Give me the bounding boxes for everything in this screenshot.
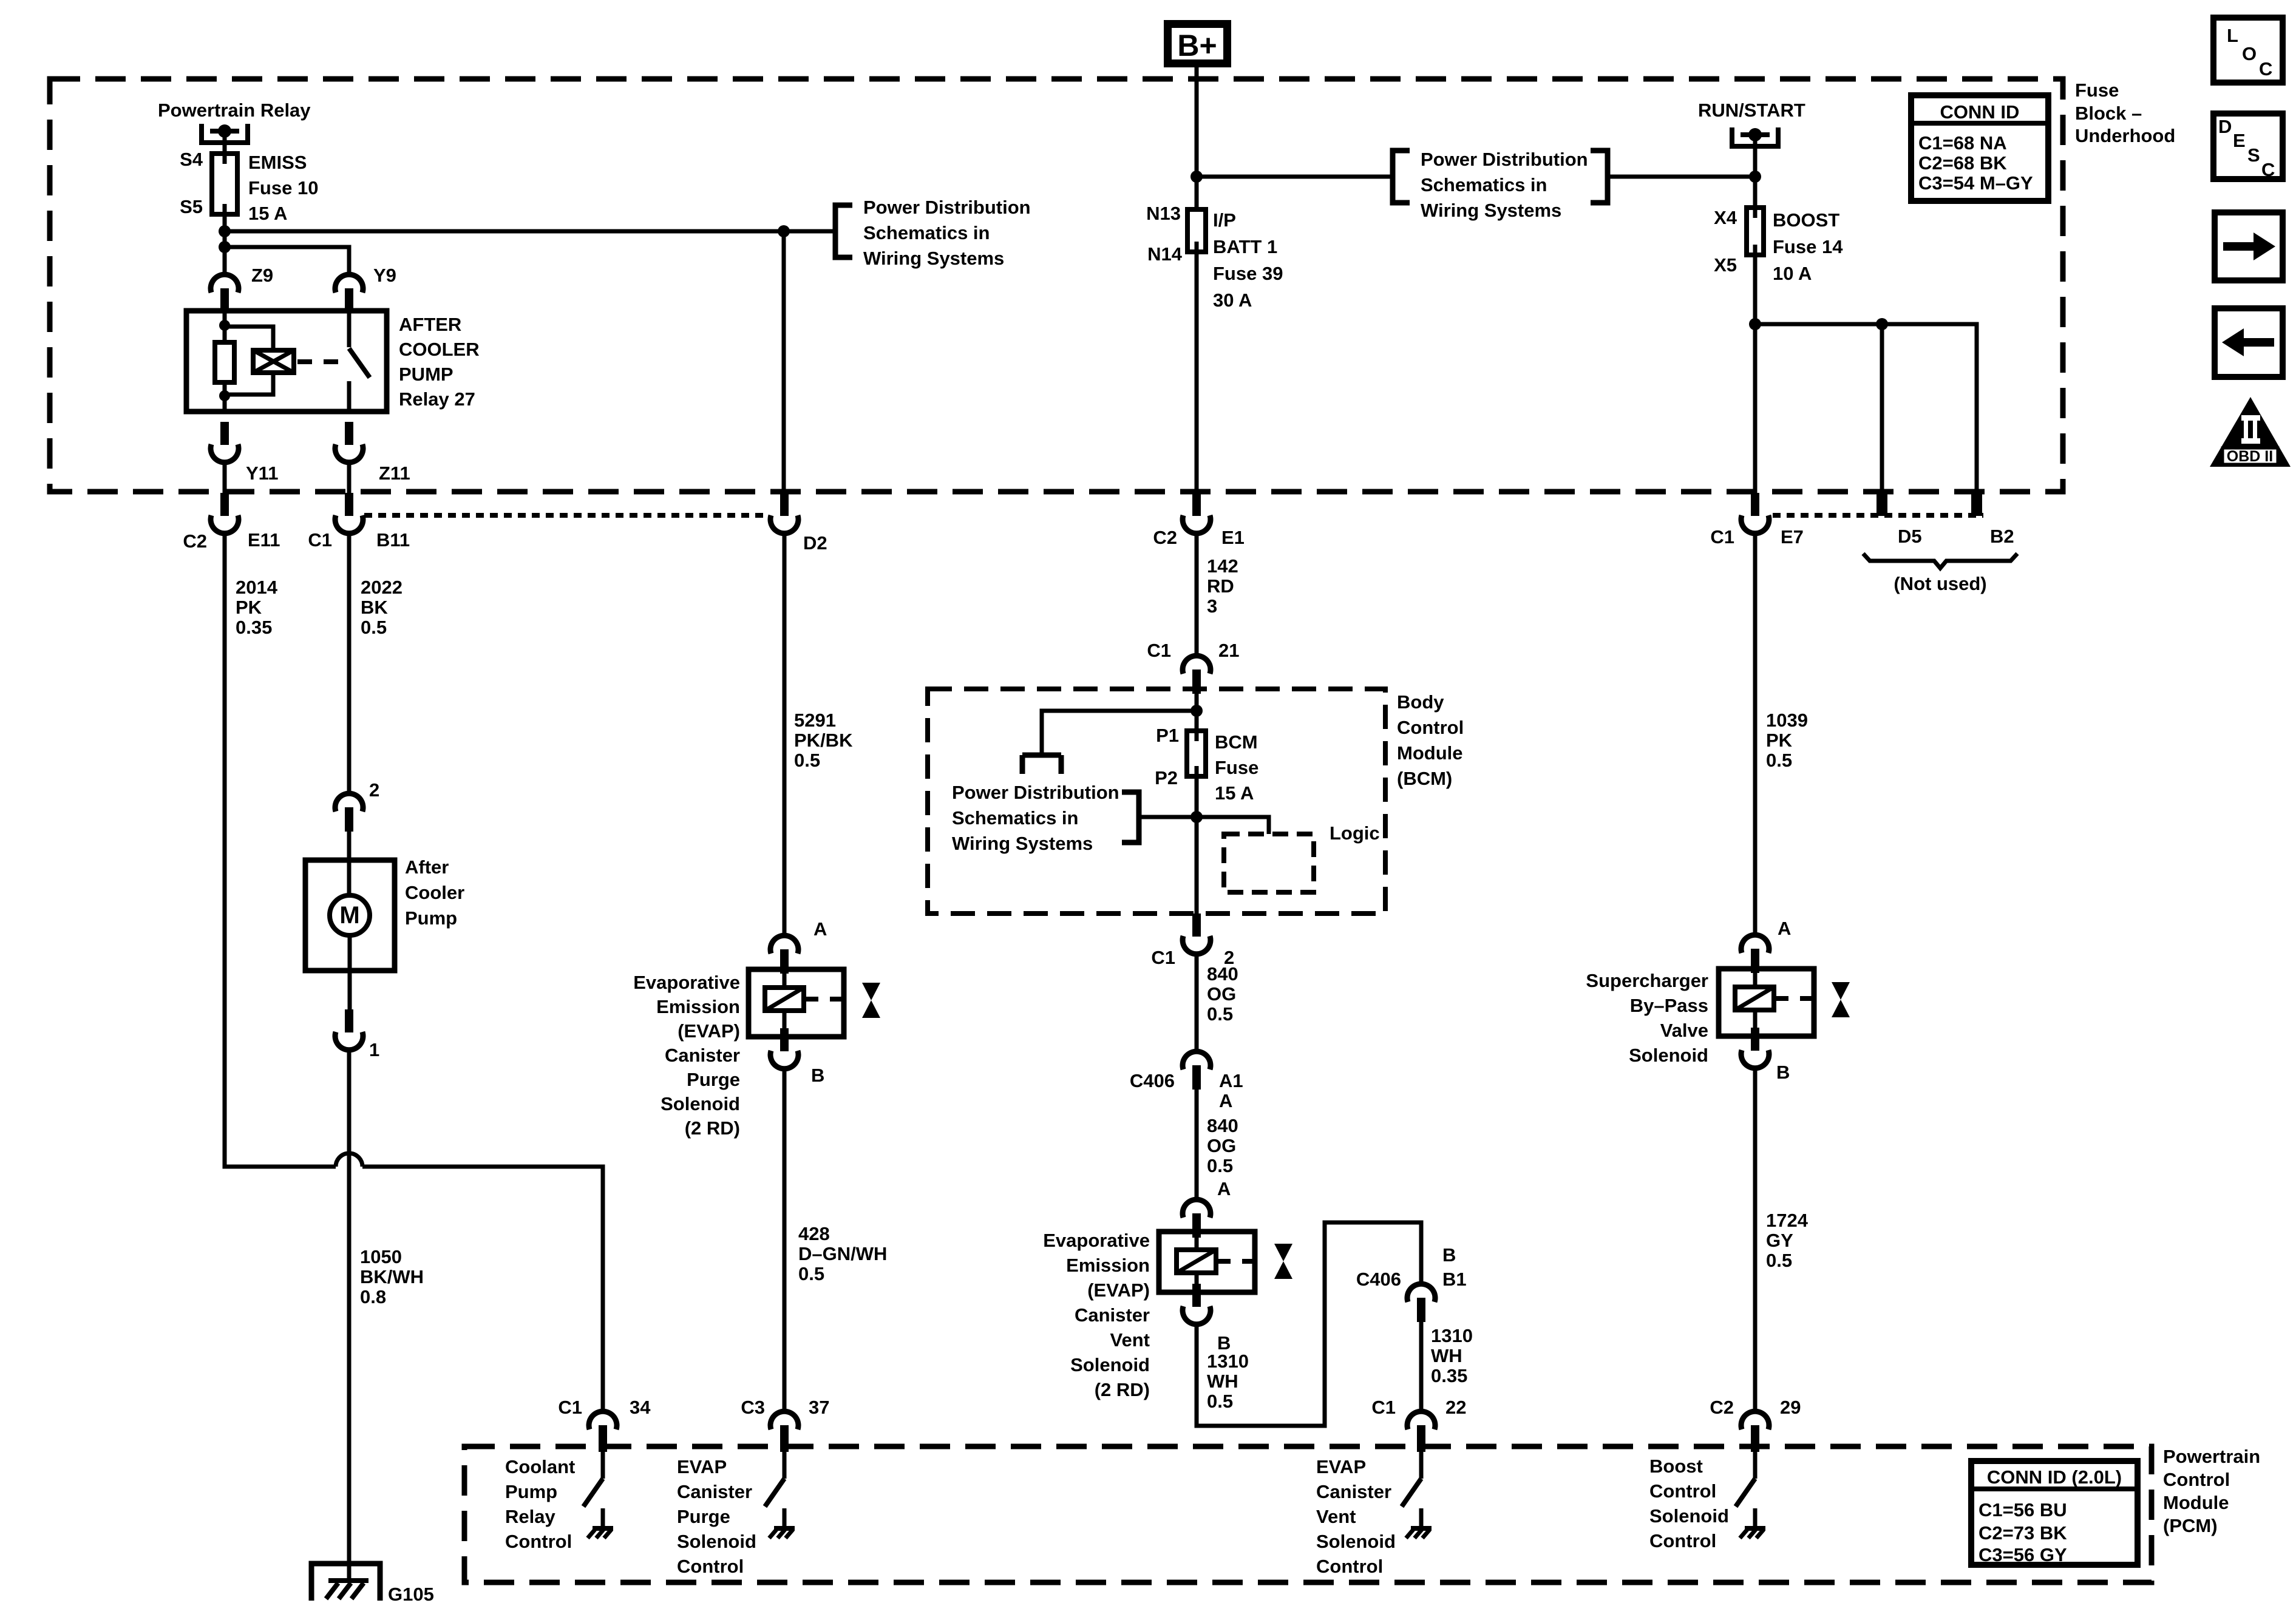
svg-text:Z11: Z11 <box>379 463 410 484</box>
svg-text:840: 840 <box>1207 963 1238 985</box>
svg-text:Canister: Canister <box>1316 1481 1391 1502</box>
svg-text:E1: E1 <box>1221 527 1245 548</box>
svg-text:(2 RD): (2 RD) <box>685 1117 740 1139</box>
svg-text:Cooler: Cooler <box>405 882 464 903</box>
powertrain control module dashed border <box>464 1446 2152 1582</box>
connector C1 E7 <box>1741 493 1769 534</box>
wire tap to fuse 10 <box>223 131 227 164</box>
BCM dashed box <box>928 689 1385 914</box>
svg-text:PK: PK <box>236 597 262 618</box>
svg-text:840: 840 <box>1207 1115 1238 1136</box>
node junction relay Y9 branch <box>219 241 231 253</box>
svg-text:Relay: Relay <box>505 1506 555 1527</box>
connector D2 <box>770 493 798 534</box>
svg-text:S: S <box>2247 144 2260 166</box>
icon DESC <box>2213 114 2283 179</box>
svg-text:S5: S5 <box>180 196 203 217</box>
svg-text:5291: 5291 <box>794 710 836 731</box>
svg-text:0.8: 0.8 <box>360 1286 386 1307</box>
svg-text:BCM: BCM <box>1215 731 1258 753</box>
svg-text:C2: C2 <box>1710 1397 1734 1418</box>
switch and ground EVAP purge solenoid control <box>765 1479 795 1538</box>
svg-text:37: 37 <box>809 1397 829 1418</box>
svg-text:M: M <box>339 902 359 929</box>
svg-text:Control: Control <box>1316 1556 1383 1577</box>
motor M after cooler pump <box>330 895 370 935</box>
wire into PCM boost control <box>1753 1449 1758 1479</box>
svg-text:(BCM): (BCM) <box>1397 768 1452 789</box>
svg-text:EVAP: EVAP <box>1316 1456 1366 1477</box>
svg-text:CONN ID: CONN ID <box>1940 101 2020 123</box>
wire BCM input to fuse P1 <box>1195 694 1199 731</box>
svg-text:Fuse: Fuse <box>1215 757 1258 778</box>
svg-text:0.5: 0.5 <box>798 1263 824 1284</box>
bracket right of BCM power distribution label <box>1122 792 1139 842</box>
svg-text:1724: 1724 <box>1766 1210 1809 1231</box>
svg-text:PK: PK <box>1766 730 1793 751</box>
wire D5 drop <box>1880 324 1884 493</box>
svg-text:Solenoid: Solenoid <box>661 1093 740 1114</box>
svg-text:10 A: 10 A <box>1773 263 1812 284</box>
svg-text:X4: X4 <box>1714 207 1737 228</box>
fuse F14 BOOST 10A <box>1747 208 1764 255</box>
svg-text:1310: 1310 <box>1207 1351 1249 1372</box>
bracket left of Power Distribution label (top middle) <box>1393 151 1410 203</box>
wire 2014 PK 0.35 <box>225 534 336 1167</box>
run/start bus tap <box>1732 127 1778 149</box>
svg-text:Evaporative: Evaporative <box>1043 1230 1150 1251</box>
EVAP canister vent solenoid <box>1159 1232 1255 1292</box>
svg-text:I/P: I/P <box>1213 209 1236 231</box>
svg-text:AFTER: AFTER <box>399 314 461 335</box>
wire to coolant pump relay control <box>362 1167 603 1411</box>
wire fuse 10 to junctions <box>223 214 227 274</box>
svg-text:Powertrain: Powertrain <box>2163 1446 2260 1467</box>
svg-text:Power Distribution: Power Distribution <box>1421 149 1588 170</box>
connector B purge solenoid <box>770 1028 798 1069</box>
svg-text:428: 428 <box>798 1223 830 1244</box>
svg-text:A: A <box>1217 1178 1231 1199</box>
svg-text:Block –: Block – <box>2075 103 2142 124</box>
svg-text:RUN/START: RUN/START <box>1698 100 1805 121</box>
wire D2 to purge solenoid A <box>783 534 787 935</box>
svg-text:Module: Module <box>1397 742 1463 764</box>
wire Y11 to fuse block edge <box>223 463 227 493</box>
svg-text:WH: WH <box>1431 1345 1462 1366</box>
wire hop over motor wire <box>336 1153 362 1167</box>
svg-text:E: E <box>2233 130 2246 151</box>
svg-text:OG: OG <box>1207 1135 1236 1156</box>
svg-text:D: D <box>2218 116 2232 137</box>
svg-text:Purge: Purge <box>687 1069 740 1090</box>
svg-text:C406: C406 <box>1130 1070 1175 1091</box>
wire 840 OG 0.5 upper <box>1195 954 1199 1051</box>
node relay coil bottom junction <box>219 390 230 401</box>
connector C1 B11 <box>335 493 363 534</box>
wire junction to Y9 <box>225 247 349 274</box>
connector 2 after cooler pump <box>335 793 363 832</box>
svg-text:C1=68 NA: C1=68 NA <box>1918 132 2007 154</box>
icon arrow left <box>2215 308 2283 377</box>
svg-text:Canister: Canister <box>665 1045 740 1066</box>
svg-text:C2: C2 <box>1153 527 1177 548</box>
wire 1724 GY 0.5 <box>1753 1068 1758 1411</box>
svg-text:34: 34 <box>630 1397 651 1418</box>
svg-text:Logic: Logic <box>1330 822 1380 844</box>
connector A purge solenoid <box>770 935 798 974</box>
svg-text:P2: P2 <box>1155 767 1178 788</box>
svg-text:(Not used): (Not used) <box>1894 573 1986 594</box>
brace not used <box>1863 554 2017 568</box>
svg-text:C2: C2 <box>183 531 207 552</box>
svg-text:Fuse 39: Fuse 39 <box>1213 263 1283 284</box>
connector C2 E1 <box>1183 493 1211 534</box>
node junction run/start power distribution <box>1749 171 1761 183</box>
wire S5 junction to power distribution reference <box>225 229 835 234</box>
svg-text:E7: E7 <box>1781 526 1804 547</box>
CONN ID table fuse block <box>1911 95 2048 201</box>
fuse F10 EMISS 15A <box>212 154 237 214</box>
fuse BCM 15A <box>1187 731 1206 776</box>
bracket left of Power Distribution label (top left) <box>835 205 852 257</box>
wire power distribution reference to RUN/START wire <box>1608 175 1755 179</box>
svg-text:A: A <box>813 918 827 940</box>
svg-text:3: 3 <box>1207 595 1217 617</box>
connector C1 34 <box>589 1411 617 1449</box>
svg-text:D2: D2 <box>803 532 827 554</box>
switch and ground boost control solenoid <box>1736 1479 1765 1538</box>
svg-text:0.5: 0.5 <box>1207 1155 1233 1176</box>
node junction D5 <box>1876 318 1888 330</box>
svg-text:30 A: 30 A <box>1213 290 1252 311</box>
connector C1 22 <box>1407 1411 1435 1449</box>
svg-text:EVAP: EVAP <box>677 1456 727 1477</box>
svg-text:Solenoid: Solenoid <box>677 1531 756 1552</box>
svg-text:Pump: Pump <box>505 1481 557 1502</box>
svg-text:C406: C406 <box>1356 1269 1401 1290</box>
svg-text:2014: 2014 <box>236 577 278 598</box>
svg-text:Power Distribution: Power Distribution <box>863 197 1031 218</box>
connector C2 E11 <box>211 493 239 534</box>
svg-text:COOLER: COOLER <box>399 339 480 360</box>
wire coil branch right <box>225 327 273 350</box>
svg-text:C1: C1 <box>1710 526 1734 547</box>
svg-text:0.5: 0.5 <box>361 617 387 638</box>
pin B2 (not used) <box>1971 493 1982 516</box>
EVAP canister purge solenoid <box>749 969 844 1037</box>
wire 2022 BK 0.5 <box>347 534 352 793</box>
svg-text:P1: P1 <box>1156 725 1179 746</box>
connector 1 after cooler pump <box>335 1009 363 1050</box>
wire 1310 WH 0.35 <box>1419 1322 1424 1411</box>
svg-text:1310: 1310 <box>1431 1325 1473 1346</box>
svg-text:A1: A1 <box>1219 1070 1243 1091</box>
svg-text:PUMP: PUMP <box>399 364 453 385</box>
svg-text:BATT 1: BATT 1 <box>1213 236 1277 257</box>
dotted harness line B11 to D2 <box>364 513 766 518</box>
wire relay switch bottom <box>347 381 352 412</box>
wire junction to power distribution reference <box>1197 175 1393 179</box>
relay coil (X box) <box>253 350 294 373</box>
icon LOC <box>2213 18 2283 83</box>
svg-text:0.5: 0.5 <box>794 750 820 771</box>
svg-text:Canister: Canister <box>677 1481 752 1502</box>
connector C1 2 <box>1183 914 1211 954</box>
svg-text:Control: Control <box>1649 1530 1716 1551</box>
svg-text:Wiring Systems: Wiring Systems <box>952 833 1093 854</box>
svg-text:E11: E11 <box>248 529 280 551</box>
wire 142 RD 3 <box>1195 534 1199 656</box>
svg-text:Emission: Emission <box>1066 1255 1150 1276</box>
svg-text:Coolant: Coolant <box>505 1456 575 1477</box>
svg-text:0.35: 0.35 <box>1431 1365 1467 1386</box>
wire 1039 PK 0.5 <box>1753 534 1758 935</box>
node relay coil top junction <box>219 320 230 331</box>
ground G105 <box>311 1564 380 1601</box>
svg-text:0.5: 0.5 <box>1207 1003 1233 1025</box>
svg-text:22: 22 <box>1445 1397 1466 1418</box>
wire into PCM <box>601 1449 605 1479</box>
svg-text:B+: B+ <box>1177 29 1217 63</box>
svg-text:Vent: Vent <box>1110 1329 1150 1351</box>
svg-text:15 A: 15 A <box>248 203 287 224</box>
svg-text:C1: C1 <box>1147 640 1171 661</box>
CONN ID (2.0L) table <box>1971 1461 2138 1565</box>
svg-text:RD: RD <box>1207 575 1234 597</box>
bracket right of Power Distribution label (top middle) <box>1591 151 1608 203</box>
wire fuse 39 to connector E1 <box>1195 252 1199 493</box>
node junction purge solenoid feed <box>778 225 790 237</box>
svg-text:Control: Control <box>505 1531 572 1552</box>
icon arrow right <box>2215 212 2283 280</box>
svg-text:Control: Control <box>2163 1469 2230 1490</box>
wire 428 D-GN/WH 0.5 <box>783 1069 787 1411</box>
svg-text:Valve: Valve <box>1660 1020 1708 1041</box>
svg-text:Power Distribution: Power Distribution <box>952 782 1119 803</box>
wire BCM fuse to output junction <box>1195 776 1199 914</box>
svg-text:GY: GY <box>1766 1230 1793 1251</box>
node BCM feed junction <box>1190 705 1203 717</box>
connector C1 21 <box>1183 656 1211 694</box>
wire branch to D5 and B2 <box>1755 324 1977 493</box>
connector B supercharger solenoid <box>1741 1028 1769 1068</box>
svg-text:C1: C1 <box>308 529 332 551</box>
svg-text:Fuse 10: Fuse 10 <box>248 177 318 198</box>
svg-text:Fuse 14: Fuse 14 <box>1773 236 1843 257</box>
svg-text:N13: N13 <box>1146 203 1181 224</box>
svg-text:OG: OG <box>1207 983 1236 1005</box>
wire into PCM vent control <box>1419 1449 1424 1479</box>
svg-text:B1: B1 <box>1442 1269 1467 1290</box>
wire 1310 WH 0.5 <box>1197 1222 1421 1426</box>
svg-text:Schematics in: Schematics in <box>863 222 990 243</box>
svg-text:(PCM): (PCM) <box>2163 1515 2218 1536</box>
svg-text:C1=56 BU: C1=56 BU <box>1978 1499 2067 1520</box>
svg-text:Solenoid: Solenoid <box>1629 1045 1708 1066</box>
svg-text:C3=54 M–GY: C3=54 M–GY <box>1918 172 2033 194</box>
svg-text:1039: 1039 <box>1766 710 1808 731</box>
svg-text:Control: Control <box>1649 1480 1716 1502</box>
connector Z9 <box>211 274 239 313</box>
svg-text:BK/WH: BK/WH <box>360 1266 424 1287</box>
svg-text:Boost: Boost <box>1649 1456 1703 1477</box>
relay switch blade <box>349 348 370 378</box>
wire pump to connector 1 <box>348 935 352 1009</box>
svg-text:(EVAP): (EVAP) <box>678 1020 740 1042</box>
svg-text:C: C <box>2261 159 2275 180</box>
relay linkage dashes <box>297 359 338 364</box>
wire relay switch top <box>347 311 352 347</box>
svg-text:S4: S4 <box>180 149 203 170</box>
svg-text:By–Pass: By–Pass <box>1630 995 1708 1016</box>
connector Y9 <box>335 274 363 313</box>
switch and ground EVAP vent solenoid control <box>1402 1479 1432 1538</box>
svg-text:C2=73 BK: C2=73 BK <box>1978 1522 2067 1544</box>
svg-text:B: B <box>1776 1062 1790 1083</box>
after cooler pump box <box>305 860 395 971</box>
svg-text:G105: G105 <box>388 1584 434 1605</box>
wire tap to fuse 14 <box>1753 135 1758 218</box>
powertrain relay bus tap <box>202 124 248 145</box>
svg-text:Evaporative: Evaporative <box>633 972 740 993</box>
vent solenoid linkage dashes <box>1216 1259 1268 1264</box>
svg-text:Underhood: Underhood <box>2075 125 2175 146</box>
svg-text:C2=68 BK: C2=68 BK <box>1918 152 2007 174</box>
connector A supercharger solenoid <box>1741 935 1769 973</box>
svg-text:Pump: Pump <box>405 907 457 929</box>
svg-text:Control: Control <box>1397 717 1464 738</box>
wire 840 OG 0.5 lower <box>1195 1090 1199 1199</box>
svg-text:C1: C1 <box>558 1397 582 1418</box>
svg-text:2: 2 <box>369 779 379 801</box>
svg-text:BK: BK <box>361 597 388 618</box>
svg-text:0.5: 0.5 <box>1766 750 1792 771</box>
wire resistor bottom to relay box bottom <box>223 382 227 412</box>
svg-text:O: O <box>2242 43 2257 64</box>
svg-text:Body: Body <box>1397 691 1444 713</box>
connector C406 B1 <box>1407 1284 1435 1322</box>
relay 27 AFTER COOLER PUMP box <box>186 311 387 412</box>
svg-text:B2: B2 <box>1990 526 2014 547</box>
svg-text:Module: Module <box>2163 1492 2229 1513</box>
connector A vent solenoid <box>1183 1199 1211 1238</box>
svg-text:OBD II: OBD II <box>2227 448 2273 465</box>
svg-text:Y9: Y9 <box>373 265 396 286</box>
svg-text:EMISS: EMISS <box>248 152 307 173</box>
battery feed B+ <box>1168 24 1228 64</box>
wire relay coil branch top <box>223 311 227 342</box>
svg-text:21: 21 <box>1218 640 1239 661</box>
svg-text:Purge: Purge <box>677 1506 730 1527</box>
svg-text:B: B <box>1442 1244 1456 1266</box>
svg-text:0.35: 0.35 <box>236 617 272 638</box>
svg-text:D5: D5 <box>1898 526 1922 547</box>
svg-text:1050: 1050 <box>360 1246 402 1267</box>
purge solenoid linkage dashes <box>804 997 856 1002</box>
icon OBD II triangle <box>2210 397 2291 467</box>
wire 1050 BK/WH 0.8 to G105 <box>347 1050 352 1581</box>
connector Z11 <box>335 422 363 463</box>
svg-text:X5: X5 <box>1714 254 1737 276</box>
svg-text:Vent: Vent <box>1316 1506 1356 1527</box>
svg-text:Fuse: Fuse <box>2075 80 2119 101</box>
svg-text:CONN ID (2.0L): CONN ID (2.0L) <box>1987 1466 2122 1488</box>
logic dashed box <box>1224 834 1314 892</box>
wire BCM logic feed <box>1197 817 1269 834</box>
svg-text:C3: C3 <box>741 1397 765 1418</box>
connector Y11 <box>211 422 239 463</box>
svg-text:15 A: 15 A <box>1215 782 1254 804</box>
svg-text:Schematics in: Schematics in <box>952 807 1078 829</box>
valve vent solenoid <box>1274 1244 1292 1279</box>
svg-text:Emission: Emission <box>656 996 740 1017</box>
wire into PCM purge control <box>783 1449 787 1479</box>
svg-text:PK/BK: PK/BK <box>794 730 853 751</box>
svg-text:Y11: Y11 <box>246 463 278 484</box>
svg-text:A: A <box>1219 1090 1232 1111</box>
pin D5 (not used) <box>1877 493 1887 516</box>
svg-text:Schematics in: Schematics in <box>1421 174 1547 195</box>
svg-text:BOOST: BOOST <box>1773 209 1839 231</box>
svg-text:C1: C1 <box>1151 947 1175 968</box>
resistor relay 27 internal <box>215 342 234 382</box>
svg-text:Solenoid: Solenoid <box>1316 1531 1396 1552</box>
svg-text:Solenoid: Solenoid <box>1649 1505 1729 1527</box>
wire coil bottom return <box>225 373 273 395</box>
svg-text:B11: B11 <box>376 529 410 551</box>
svg-text:Wiring Systems: Wiring Systems <box>1421 200 1561 221</box>
wire BCM junction to internal bus <box>1042 711 1197 753</box>
svg-text:Solenoid: Solenoid <box>1070 1354 1150 1375</box>
svg-text:Supercharger: Supercharger <box>1586 970 1708 991</box>
valve purge solenoid <box>862 983 880 1018</box>
dotted harness line E7 to B2 <box>1773 513 1983 518</box>
node junction D5/B2 branch <box>1749 318 1761 330</box>
svg-text:D–GN/WH: D–GN/WH <box>798 1243 887 1264</box>
connector B vent solenoid <box>1183 1284 1211 1324</box>
svg-text:After: After <box>405 856 449 878</box>
svg-text:142: 142 <box>1207 555 1238 577</box>
svg-text:N14: N14 <box>1147 243 1183 265</box>
svg-text:L: L <box>2227 25 2238 46</box>
svg-text:WH: WH <box>1207 1371 1238 1392</box>
svg-text:C1: C1 <box>1371 1397 1396 1418</box>
wire B+ down to junction <box>1195 63 1199 209</box>
node S5 junction to power distribution <box>219 225 231 237</box>
svg-text:Wiring Systems: Wiring Systems <box>863 248 1004 269</box>
svg-text:2022: 2022 <box>361 577 402 598</box>
connector C406 A1 <box>1183 1051 1211 1090</box>
wire fuse 14 to connector E7 <box>1753 255 1758 493</box>
valve supercharger solenoid <box>1832 982 1850 1017</box>
fuse block underhood dashed border <box>50 79 2063 492</box>
svg-text:A: A <box>1778 918 1791 939</box>
svg-text:B: B <box>811 1065 824 1086</box>
switch and ground coolant pump relay control <box>583 1479 613 1538</box>
node BCM output junction <box>1190 811 1203 823</box>
svg-text:0.5: 0.5 <box>1766 1250 1792 1271</box>
svg-text:(EVAP): (EVAP) <box>1087 1280 1150 1301</box>
wire 5291 PK/BK 0.5 drop from junction <box>782 231 786 493</box>
supercharger solenoid linkage dashes <box>1774 996 1826 1001</box>
svg-text:0.5: 0.5 <box>1207 1391 1233 1412</box>
svg-text:Powertrain Relay: Powertrain Relay <box>158 100 311 121</box>
connector C2 29 <box>1741 1411 1769 1449</box>
fuse F39 I/P BATT 1 30A <box>1187 209 1206 252</box>
svg-text:Canister: Canister <box>1075 1304 1150 1326</box>
svg-text:29: 29 <box>1780 1397 1801 1418</box>
svg-text:Z9: Z9 <box>251 265 273 286</box>
